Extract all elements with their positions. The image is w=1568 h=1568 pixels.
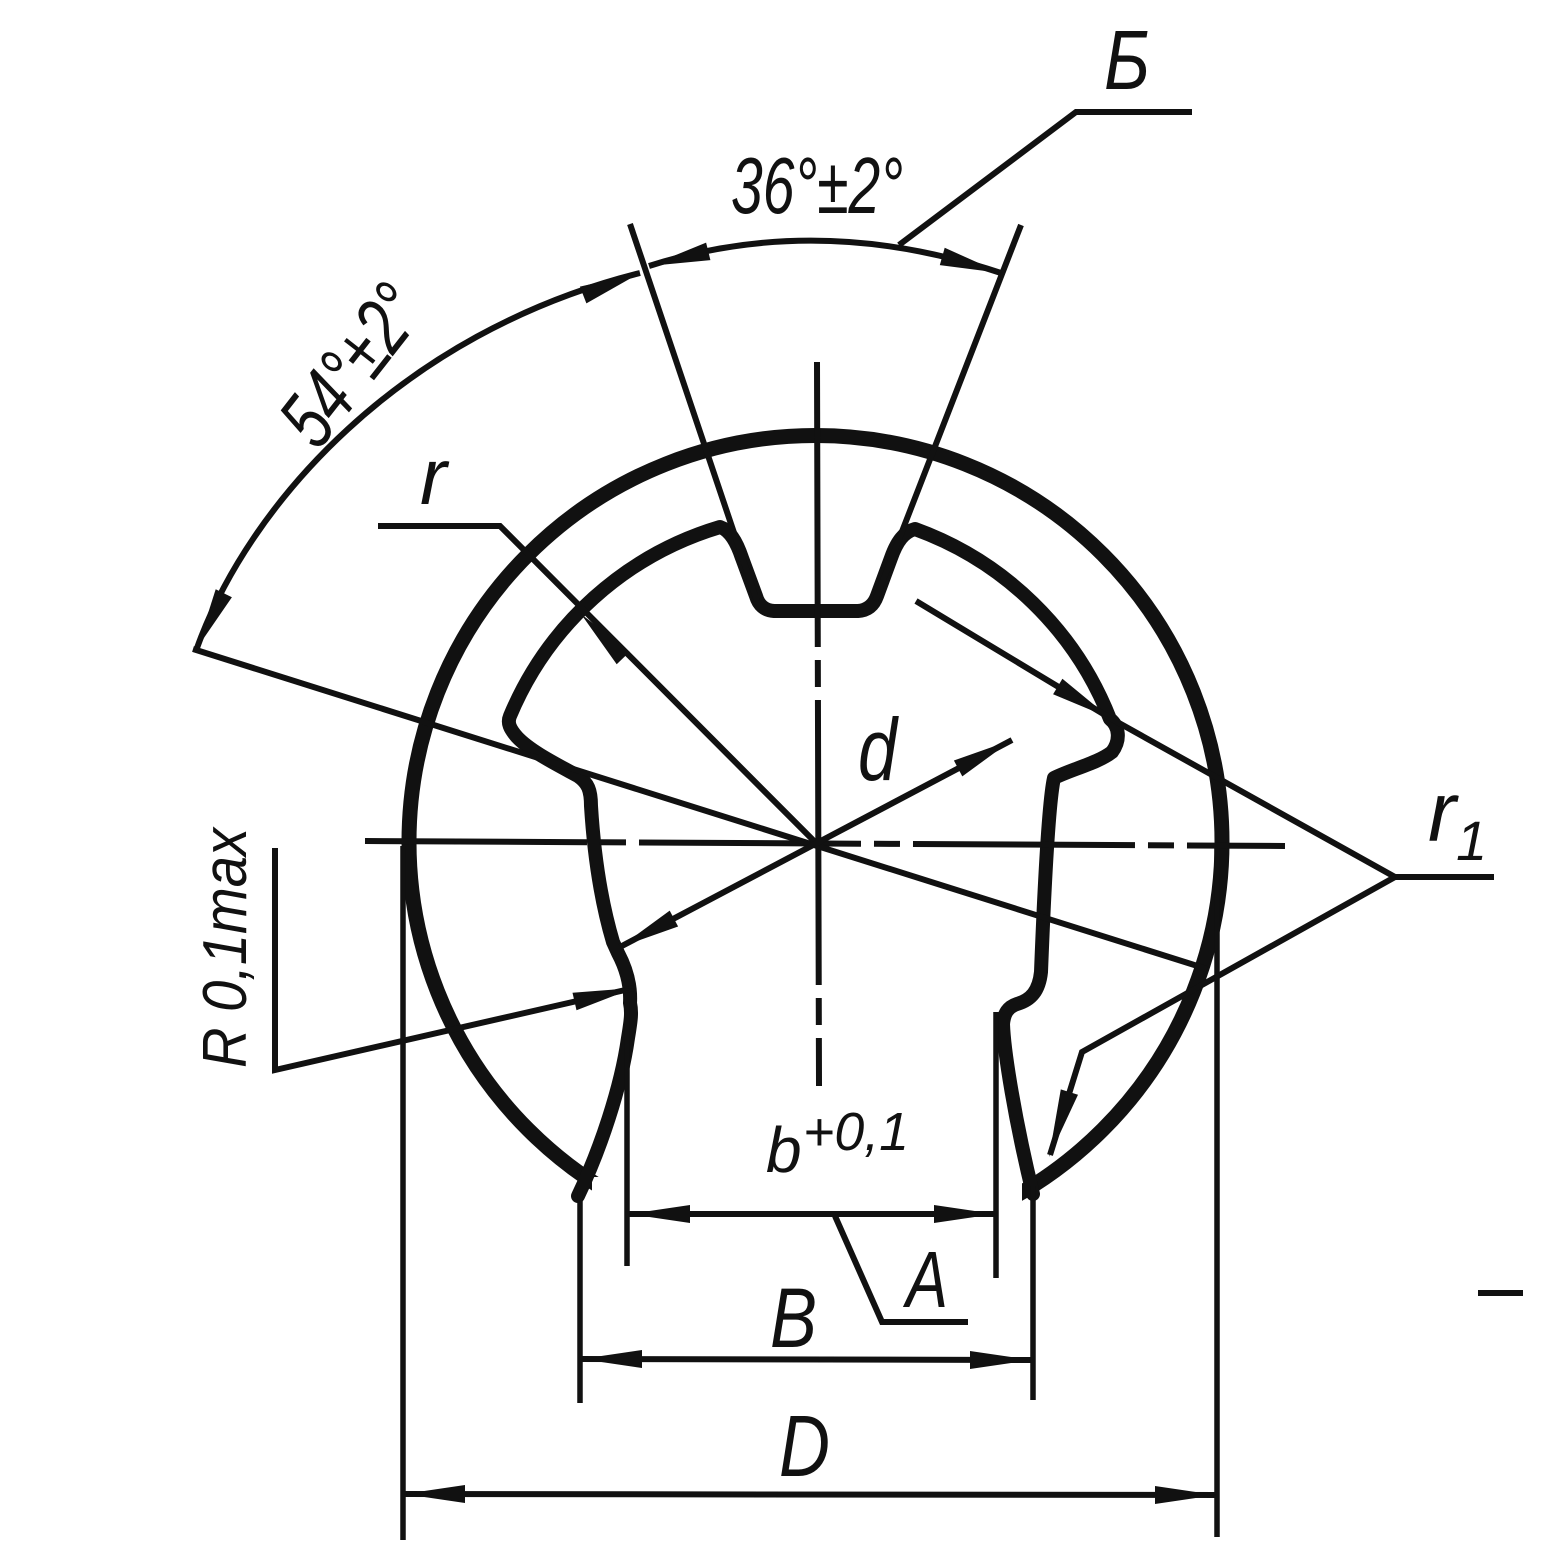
B dimension line bbox=[581, 1359, 1031, 1360]
B arrow right bbox=[970, 1351, 1031, 1369]
svg-text:D: D bbox=[779, 1398, 830, 1495]
svg-text:B: B bbox=[770, 1271, 817, 1365]
D dimension line bbox=[404, 1494, 1216, 1495]
svg-text:A: A bbox=[903, 1235, 948, 1324]
stray dash at right margin bbox=[1478, 1290, 1523, 1296]
r1 lower branch to claw fillet bbox=[1050, 877, 1395, 1155]
D arrow right bbox=[1155, 1486, 1216, 1504]
svg-text:b: b bbox=[766, 1114, 802, 1186]
svg-text:r: r bbox=[1428, 765, 1459, 859]
r1 label underline bbox=[1395, 874, 1494, 880]
slot wall extension line right (36 deg side) bbox=[875, 225, 1021, 601]
svg-text:54°±2°: 54°±2° bbox=[261, 267, 441, 462]
d arrow upper-right bbox=[954, 740, 1012, 776]
vertical centerline bbox=[817, 362, 819, 1086]
36 deg arc right arrow bbox=[940, 248, 1001, 273]
b extension line left bbox=[624, 1002, 630, 1266]
svg-text:r: r bbox=[420, 432, 450, 521]
svg-text:1: 1 bbox=[1456, 809, 1487, 872]
b arrow left bbox=[629, 1205, 690, 1223]
svg-text:Б: Б bbox=[1104, 13, 1150, 107]
D extension line right bbox=[1214, 848, 1220, 1537]
b dimension line bbox=[629, 1211, 995, 1217]
r1 arrowhead at lobe fillet bbox=[1053, 679, 1110, 718]
A label leader bbox=[835, 1216, 968, 1322]
D arrow left bbox=[404, 1485, 465, 1503]
B arrow left bbox=[581, 1350, 642, 1368]
svg-text:R 0,1max: R 0,1max bbox=[191, 826, 260, 1068]
inner contour of E-ring (bore, slot, lobes, mouth walls) bbox=[509, 527, 1118, 1196]
B extension line right bbox=[1030, 1186, 1036, 1400]
d diameter line bbox=[620, 740, 1012, 947]
54 deg arc upper arrow bbox=[580, 273, 640, 303]
54 deg boundary line through center bbox=[193, 649, 1207, 969]
R 0,1 max leader line bbox=[275, 848, 634, 1070]
d arrow lower-left bbox=[620, 911, 678, 947]
B extension line left bbox=[577, 1190, 583, 1403]
R 0,1 max arrowhead at step bbox=[573, 988, 635, 1010]
svg-text:+0,1: +0,1 bbox=[803, 1102, 909, 1162]
b arrow right bbox=[934, 1205, 995, 1223]
r radius leader line bbox=[378, 526, 816, 843]
54 deg dimension arc bbox=[197, 273, 640, 648]
b extension line right bbox=[993, 1012, 999, 1278]
36 deg dimension arc bbox=[649, 241, 1001, 273]
section label B leader line bbox=[899, 112, 1192, 245]
horizontal centerline bbox=[365, 841, 1285, 846]
svg-text:d: d bbox=[858, 700, 899, 799]
r1 upper branch to lobe fillet bbox=[916, 601, 1395, 877]
mouth opening (erase bottom arc between claw tips) bbox=[592, 1177, 1022, 1272]
r arrowhead on inner contour bbox=[581, 614, 630, 664]
slot wall extension line left (36 deg side) bbox=[630, 224, 757, 601]
r1 arrowhead at claw fillet bbox=[1049, 1089, 1078, 1157]
outer circle of washer D bbox=[409, 436, 1222, 1249]
D extension line left bbox=[400, 846, 406, 1540]
54 deg arc lower arrow bbox=[197, 589, 232, 648]
svg-text:36°±2°: 36°±2° bbox=[731, 141, 903, 230]
36 deg arc left arrow bbox=[649, 243, 710, 266]
